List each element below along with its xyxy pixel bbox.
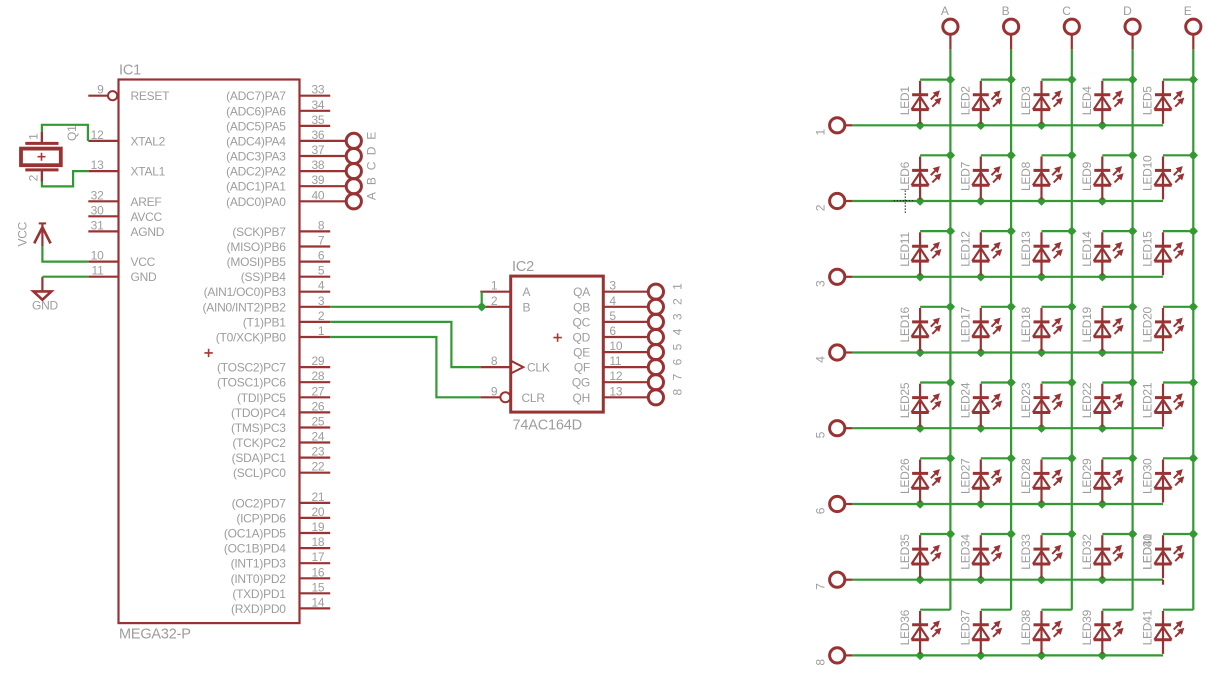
- LED LED32: [1080, 534, 1124, 579]
- svg-text:QA: QA: [573, 285, 590, 299]
- wire column net B: [1006, 50, 1015, 610]
- svg-text:4: 4: [318, 279, 325, 293]
- LED LED36: [898, 609, 942, 654]
- LED LED25: [898, 382, 942, 427]
- svg-text:(MOSI)PB5: (MOSI)PB5: [227, 255, 287, 269]
- IC2 pin 11 QF: [574, 354, 648, 375]
- svg-text:LED21: LED21: [1141, 382, 1155, 418]
- svg-text:8: 8: [318, 218, 325, 232]
- IC1 pin 38 PA2: [226, 158, 379, 179]
- IC1 pin 31 AGND: [88, 218, 164, 239]
- svg-text:37: 37: [311, 143, 324, 157]
- wire anode net LED11 to column A: [920, 230, 950, 232]
- svg-text:(INT0)PD2: (INT0)PD2: [231, 572, 287, 586]
- wire anode net LED6 to column A: [920, 154, 950, 156]
- svg-text:LED41: LED41: [1141, 609, 1155, 645]
- IC1 pin 1 PB0: [216, 324, 330, 345]
- IC1 pin 6 PB5: [227, 249, 331, 270]
- LED LED30: [1141, 458, 1185, 503]
- wire anode net LED34 to column B: [981, 533, 1011, 535]
- IC1 origin cross: [204, 349, 212, 357]
- svg-text:MEGA32-P: MEGA32-P: [119, 627, 191, 643]
- wire net PB0 to IC2 CLR: [330, 337, 480, 397]
- svg-text:(INT1)PD3: (INT1)PD3: [231, 557, 287, 571]
- svg-text:(TDI)PC5: (TDI)PC5: [237, 391, 286, 405]
- IC2 pin 10 QE: [573, 339, 648, 360]
- svg-text:D: D: [1123, 4, 1132, 18]
- svg-text:LED18: LED18: [1019, 306, 1033, 342]
- LED LED28: [1019, 458, 1063, 503]
- svg-text:16: 16: [311, 565, 324, 579]
- svg-text:6: 6: [609, 324, 616, 338]
- svg-text:AREF: AREF: [131, 195, 162, 209]
- svg-text:(TOSC1)PC6: (TOSC1)PC6: [217, 376, 286, 390]
- svg-text:(AIN0/INT2)PB2: (AIN0/INT2)PB2: [202, 300, 286, 314]
- svg-text:74AC164D: 74AC164D: [513, 418, 582, 434]
- svg-text:17: 17: [311, 550, 324, 564]
- svg-text:8: 8: [813, 659, 827, 666]
- svg-text:LED12: LED12: [959, 231, 973, 267]
- svg-text:(ADC2)PA2: (ADC2)PA2: [226, 165, 286, 179]
- svg-text:CLK: CLK: [527, 361, 550, 375]
- svg-text:QF: QF: [574, 361, 590, 375]
- svg-text:LED24: LED24: [959, 382, 973, 418]
- IC1 pin 17 PD3: [231, 550, 331, 571]
- pad column B: [1002, 4, 1019, 50]
- svg-text:2: 2: [670, 298, 684, 305]
- svg-text:LED26: LED26: [898, 458, 912, 494]
- LED LED27: [959, 458, 1003, 503]
- svg-text:AGND: AGND: [131, 225, 165, 239]
- LED LED21: [1141, 382, 1185, 427]
- wire anode net LED21 to column E: [1163, 381, 1193, 383]
- IC1 pin 36 PA4: [226, 128, 379, 149]
- pad row 8: [813, 648, 852, 666]
- svg-text:(ADC4)PA4: (ADC4)PA4: [226, 134, 286, 148]
- svg-text:3: 3: [609, 279, 616, 293]
- svg-text:E: E: [1184, 4, 1192, 18]
- svg-text:28: 28: [311, 369, 324, 383]
- LED LED10: [1141, 155, 1185, 200]
- ground symbol GND: [32, 277, 59, 312]
- wire row net 3: [852, 272, 1163, 281]
- IC2 pin 6 QD: [573, 324, 649, 345]
- svg-text:LED1: LED1: [898, 86, 912, 116]
- wire row net 7: [852, 575, 1163, 584]
- wire net PB1 to IC2 CLK: [330, 322, 480, 367]
- svg-text:LED9: LED9: [1080, 161, 1094, 191]
- wire column net A: [946, 50, 955, 610]
- IC1 pin 32 AREF: [88, 188, 161, 209]
- svg-text:LED5: LED5: [1141, 86, 1155, 116]
- crystal Q1: [21, 125, 79, 181]
- svg-text:39: 39: [311, 173, 324, 187]
- IC1 pin 22 PC0: [233, 460, 330, 481]
- svg-text:4: 4: [670, 328, 684, 335]
- wire anode net LED3 to column C: [1042, 78, 1072, 80]
- wire column net E: [1189, 50, 1198, 610]
- IC1 pin 35 PA5: [226, 113, 330, 133]
- wire anode net LED19 to column D: [1102, 306, 1132, 308]
- svg-text:(SS)PB4: (SS)PB4: [241, 270, 287, 284]
- IC2 origin cross: [553, 333, 561, 341]
- dotted origin cross (net origin marker, row 2): [894, 191, 915, 214]
- IC1 pin 16 PD2: [231, 565, 331, 586]
- wire anode net LED30 to column E: [1163, 457, 1193, 459]
- LED LED12: [959, 231, 1003, 276]
- wire anode net LED28 to column C: [1042, 457, 1072, 459]
- IC1 pin 23 PC1: [232, 445, 331, 466]
- IC1 pin 34 PA6: [226, 98, 330, 119]
- svg-text:5: 5: [670, 343, 684, 350]
- svg-text:LED33: LED33: [1019, 534, 1033, 570]
- svg-text:(TCK)PC2: (TCK)PC2: [232, 436, 286, 450]
- svg-text:A: A: [365, 192, 379, 200]
- svg-text:LED6: LED6: [898, 161, 912, 191]
- IC2 pin 12 QG: [572, 369, 648, 390]
- svg-text:C: C: [1062, 4, 1071, 18]
- svg-text:QG: QG: [572, 376, 590, 390]
- wire anode net LED31 to column E: [1163, 533, 1193, 535]
- pad column D: [1123, 4, 1140, 50]
- LED LED9: [1080, 157, 1124, 200]
- wire anode net LED10 to column E: [1163, 154, 1193, 156]
- svg-text:(ADC0)PA0: (ADC0)PA0: [226, 195, 286, 209]
- svg-text:(MISO)PB6: (MISO)PB6: [227, 240, 287, 254]
- svg-text:5: 5: [813, 431, 827, 438]
- IC1 pin 9 RESET: [88, 83, 170, 104]
- wire anode net LED12 to column B: [981, 230, 1011, 232]
- svg-text:QD: QD: [573, 331, 591, 345]
- svg-text:13: 13: [91, 158, 104, 172]
- svg-text:(SDA)PC1: (SDA)PC1: [232, 451, 287, 465]
- IC1 pin 30 AVCC: [88, 203, 162, 224]
- svg-text:(ADC6)PA6: (ADC6)PA6: [226, 104, 286, 118]
- wire VCC net to IC1 pin 10: [42, 246, 88, 261]
- IC1 pin 3 PB2: [202, 294, 330, 315]
- wire anode net LED23 to column C: [1042, 381, 1072, 383]
- svg-text:LED30: LED30: [1141, 458, 1155, 494]
- svg-text:(ADC5)PA5: (ADC5)PA5: [226, 119, 286, 133]
- svg-text:LED32: LED32: [1080, 534, 1094, 570]
- IC2 pin 1 A: [480, 279, 530, 300]
- wire row net 8: [852, 651, 1163, 660]
- LED LED22: [1080, 382, 1124, 427]
- pad row 4: [813, 345, 852, 363]
- svg-text:(ADC1)PA1: (ADC1)PA1: [226, 180, 286, 194]
- LED LED14: [1080, 231, 1124, 276]
- LED LED20: [1141, 306, 1185, 351]
- LED LED11: [898, 232, 942, 276]
- IC1 pin 12 XTAL2: [88, 128, 165, 149]
- IC1 pin 25 PC3: [231, 415, 330, 436]
- pad column C: [1062, 4, 1079, 50]
- svg-text:27: 27: [311, 384, 324, 398]
- svg-text:XTAL2: XTAL2: [131, 134, 166, 148]
- LED LED2: [959, 81, 1003, 124]
- svg-text:Q1: Q1: [65, 125, 79, 141]
- svg-text:10: 10: [609, 339, 622, 353]
- svg-text:GND: GND: [32, 298, 59, 312]
- pad row 1: [813, 118, 852, 136]
- svg-text:4: 4: [609, 294, 616, 308]
- wire XTAL1 net (Q1 pin2 to IC1 XTAL1): [42, 170, 88, 187]
- svg-text:LED20: LED20: [1141, 306, 1155, 342]
- IC1 pin 4 PB3: [204, 279, 331, 300]
- svg-text:LED4: LED4: [1080, 86, 1094, 116]
- svg-text:LED36: LED36: [898, 609, 912, 645]
- IC1 pin 18 PD4: [224, 535, 330, 556]
- pad 7 (IC2 output QG): [648, 373, 684, 389]
- svg-text:2: 2: [318, 309, 325, 323]
- wire anode net LED37 to column B: [981, 609, 1011, 611]
- svg-text:B: B: [1002, 4, 1010, 18]
- svg-text:9: 9: [491, 384, 498, 398]
- pad 1 (IC2 output QA): [648, 283, 684, 299]
- svg-text:(SCL)PC0: (SCL)PC0: [233, 466, 286, 480]
- wire column net C: [1067, 50, 1076, 610]
- svg-text:(ADC7)PA7: (ADC7)PA7: [226, 89, 286, 103]
- wire anode net LED36 to column A: [920, 609, 950, 611]
- svg-text:LED25: LED25: [898, 382, 912, 418]
- svg-text:B: B: [365, 177, 379, 185]
- LED LED23: [1019, 382, 1063, 427]
- IC1 pin 13 XTAL1: [88, 158, 165, 179]
- svg-text:12: 12: [91, 128, 104, 142]
- svg-text:VCC: VCC: [16, 221, 30, 246]
- LED LED19: [1080, 306, 1124, 351]
- svg-text:5: 5: [609, 309, 616, 323]
- svg-text:LED23: LED23: [1019, 382, 1033, 418]
- pad 6 (IC2 output QF): [648, 358, 684, 374]
- IC1 pin 20 PD6: [236, 505, 330, 526]
- svg-text:LED40: LED40: [1141, 534, 1155, 570]
- svg-text:26: 26: [311, 399, 324, 413]
- LED LED35: [898, 534, 942, 579]
- svg-text:2: 2: [491, 294, 498, 308]
- pad 5 (IC2 output QE): [648, 343, 684, 359]
- svg-text:GND: GND: [131, 270, 158, 284]
- svg-text:20: 20: [311, 505, 324, 519]
- wire anode net LED27 to column B: [981, 457, 1011, 459]
- svg-text:31: 31: [91, 218, 104, 232]
- svg-text:1: 1: [670, 283, 684, 290]
- LED LED24: [959, 382, 1003, 427]
- svg-text:9: 9: [97, 83, 104, 97]
- LED LED18: [1019, 306, 1063, 351]
- svg-text:(SCK)PB7: (SCK)PB7: [232, 225, 286, 239]
- wire anode net LED41 to column E: [1163, 609, 1193, 611]
- LED LED4: [1080, 81, 1124, 124]
- svg-text:12: 12: [609, 369, 622, 383]
- pad row 3: [813, 269, 852, 287]
- svg-text:35: 35: [311, 113, 324, 127]
- svg-text:(AIN1/OC0)PB3: (AIN1/OC0)PB3: [204, 285, 287, 299]
- svg-text:LED34: LED34: [959, 534, 973, 570]
- IC2 74AC164D body: [511, 259, 604, 434]
- IC1 pin 39 PA1: [226, 173, 379, 194]
- wire anode net LED9 to column D: [1102, 154, 1132, 156]
- IC1 pin 28 PC6: [217, 369, 330, 390]
- pad row 5: [813, 421, 852, 439]
- IC1 pin 37 PA3: [226, 143, 379, 164]
- LED LED8: [1019, 157, 1063, 200]
- pad 3 (IC2 output QC): [648, 313, 684, 329]
- svg-text:A: A: [523, 285, 531, 299]
- svg-text:2: 2: [813, 204, 827, 211]
- wire anode net LED15 to column E: [1163, 230, 1193, 232]
- IC1 pin 10 VCC: [88, 249, 155, 270]
- pad 4 (IC2 output QD): [648, 328, 684, 344]
- svg-text:4: 4: [813, 356, 827, 363]
- wire anode net LED18 to column C: [1042, 306, 1072, 308]
- svg-text:QH: QH: [573, 391, 591, 405]
- wire anode net LED8 to column C: [1042, 154, 1072, 156]
- wire anode net LED1 to column A: [920, 78, 950, 80]
- svg-text:1: 1: [813, 129, 827, 136]
- svg-text:14: 14: [311, 595, 324, 609]
- IC1 pin 26 PC4: [231, 399, 330, 420]
- wire anode net LED22 to column D: [1102, 381, 1132, 383]
- IC1 pin 14 PD0: [231, 595, 330, 616]
- LED LED39: [1080, 609, 1124, 654]
- svg-text:LED14: LED14: [1080, 231, 1094, 267]
- svg-text:25: 25: [311, 415, 324, 429]
- IC1 pin 27 PC5: [237, 384, 330, 405]
- IC1 pin 21 PD7: [232, 490, 331, 511]
- svg-text:7: 7: [318, 234, 325, 248]
- svg-text:7: 7: [813, 583, 827, 590]
- LED LED34: [959, 534, 1003, 579]
- wire XTAL2 net (Q1 pin1 to IC1 XTAL2): [42, 125, 88, 144]
- svg-text:10: 10: [91, 249, 104, 263]
- pad row 6: [813, 496, 852, 514]
- IC2 pin 3 QA: [573, 279, 648, 300]
- wire anode net LED17 to column B: [981, 306, 1011, 308]
- wire anode net LED7 to column B: [981, 154, 1011, 156]
- pad row 2: [813, 193, 852, 211]
- svg-text:23: 23: [311, 445, 324, 459]
- svg-text:1: 1: [26, 133, 40, 140]
- svg-text:(T1)PB1: (T1)PB1: [243, 315, 287, 329]
- IC1 pin 7 PB6: [227, 234, 331, 255]
- svg-text:8: 8: [670, 389, 684, 396]
- svg-text:5: 5: [318, 264, 325, 278]
- wire anode net LED39 to column D: [1102, 609, 1132, 611]
- LED LED37: [959, 609, 1003, 654]
- svg-text:3: 3: [813, 280, 827, 287]
- svg-text:19: 19: [311, 520, 324, 534]
- svg-text:LED16: LED16: [898, 306, 912, 342]
- IC1 pin 2 PB1: [243, 309, 330, 330]
- svg-text:22: 22: [311, 460, 324, 474]
- svg-text:13: 13: [609, 384, 622, 398]
- svg-text:LED2: LED2: [959, 86, 973, 116]
- LED LED5: [1141, 81, 1185, 124]
- svg-text:IC2: IC2: [512, 259, 534, 275]
- wire row net 1: [852, 121, 1163, 130]
- LED LED41: [1141, 609, 1185, 654]
- svg-text:RESET: RESET: [131, 89, 171, 103]
- wire anode net LED26 to column A: [920, 457, 950, 459]
- svg-text:LED19: LED19: [1080, 306, 1094, 342]
- LED LED33: [1019, 534, 1063, 579]
- svg-text:(TOSC2)PC7: (TOSC2)PC7: [217, 361, 286, 375]
- IC1 pin 15 PD1: [232, 580, 330, 601]
- wire anode net LED5 to column E: [1163, 78, 1193, 80]
- svg-text:1: 1: [491, 279, 498, 293]
- IC1 pin 24 PC2: [232, 430, 330, 451]
- wire row net 4: [852, 348, 1163, 357]
- svg-text:8: 8: [491, 354, 498, 368]
- svg-text:QB: QB: [573, 300, 590, 314]
- svg-text:LED39: LED39: [1080, 609, 1094, 645]
- IC1 pin 8 PB7: [232, 218, 330, 239]
- LED LED1: [898, 81, 942, 124]
- svg-text:LED38: LED38: [1019, 609, 1033, 645]
- wire row net 5: [852, 424, 1163, 433]
- svg-text:LED10: LED10: [1141, 155, 1155, 191]
- svg-text:QC: QC: [573, 315, 591, 329]
- svg-text:6: 6: [670, 358, 684, 365]
- IC1 pin 29 PC7: [217, 354, 330, 375]
- LED LED26: [898, 458, 942, 503]
- IC1 pin 33 PA7: [226, 83, 330, 104]
- svg-text:D: D: [365, 146, 379, 155]
- svg-text:32: 32: [91, 188, 104, 202]
- pad column A: [941, 4, 958, 50]
- svg-text:XTAL1: XTAL1: [131, 165, 166, 179]
- LED LED6: [898, 157, 942, 200]
- wire net PB2 to IC2 A/B with junction: [330, 292, 486, 312]
- svg-text:(OC2)PD7: (OC2)PD7: [232, 496, 287, 510]
- wire row net 2: [852, 196, 1163, 205]
- svg-text:(T0/XCK)PB0: (T0/XCK)PB0: [216, 331, 287, 345]
- wire anode net LED20 to column E: [1163, 306, 1193, 308]
- svg-text:7: 7: [670, 373, 684, 380]
- svg-text:6: 6: [813, 507, 827, 514]
- svg-text:24: 24: [311, 430, 324, 444]
- svg-text:LED27: LED27: [959, 458, 973, 494]
- svg-text:40: 40: [311, 188, 324, 202]
- svg-text:LED8: LED8: [1019, 161, 1033, 191]
- svg-text:VCC: VCC: [131, 255, 156, 269]
- LED LED31: [1141, 534, 1185, 585]
- svg-text:(OC1A)PD5: (OC1A)PD5: [224, 527, 286, 541]
- svg-text:LED13: LED13: [1019, 231, 1033, 267]
- wire anode net LED4 to column D: [1102, 78, 1132, 80]
- LED LED16: [898, 306, 942, 351]
- svg-text:33: 33: [311, 83, 324, 97]
- svg-text:LED29: LED29: [1080, 458, 1094, 494]
- svg-text:18: 18: [311, 535, 324, 549]
- LED LED13: [1019, 231, 1063, 276]
- svg-text:LED35: LED35: [898, 534, 912, 570]
- svg-text:QE: QE: [573, 346, 590, 360]
- wire anode net LED32 to column D: [1102, 533, 1132, 535]
- svg-text:LED17: LED17: [959, 306, 973, 342]
- svg-text:LED11: LED11: [898, 232, 912, 267]
- IC2 pin 5 QC: [573, 309, 649, 330]
- IC1 pin 40 PA0: [226, 188, 379, 209]
- wire row net 6: [852, 499, 1163, 508]
- wire anode net LED13 to column C: [1042, 230, 1072, 232]
- pad row 7: [813, 572, 852, 590]
- svg-text:11: 11: [92, 264, 105, 278]
- svg-text:(ICP)PD6: (ICP)PD6: [236, 511, 286, 525]
- svg-text:B: B: [523, 300, 531, 314]
- wire anode net LED29 to column D: [1102, 457, 1132, 459]
